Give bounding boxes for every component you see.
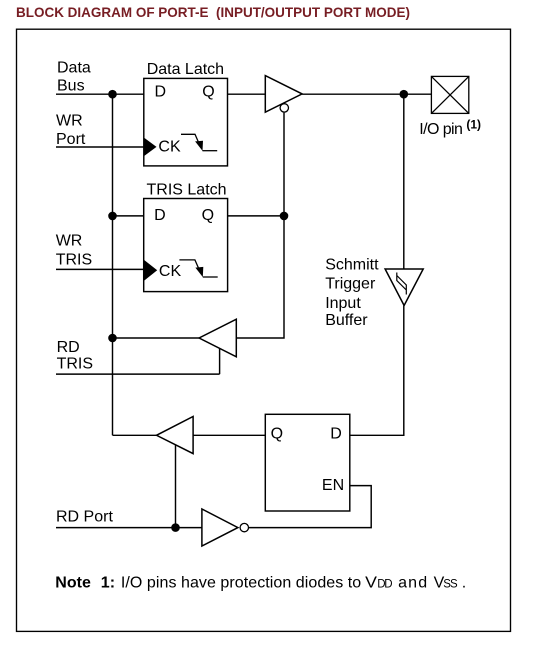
svg-text:CK: CK — [158, 139, 181, 156]
wire TRIS Q down to RD TRIS buffer — [236, 216, 284, 338]
wire TRIS Q out — [228, 215, 284, 217]
RD buffer triangle — [157, 417, 194, 454]
svg-text:Q: Q — [271, 426, 283, 443]
svg-text:I/O pin: I/O pin — [419, 121, 463, 138]
junction dot RD TRIS out — [108, 334, 117, 343]
wire Schmitt out to latch D — [350, 306, 404, 436]
svg-text:Q: Q — [202, 83, 214, 100]
I/O pin box — [431, 76, 468, 113]
wire RD buffer input — [193, 434, 265, 436]
output buffer triangle — [265, 76, 302, 113]
junction dot data bus — [108, 90, 117, 99]
svg-text:.: . — [462, 575, 466, 592]
svg-text:Buffer: Buffer — [325, 312, 368, 329]
wire I/O pin down to Schmitt — [403, 94, 405, 269]
wire WR TRIS — [56, 268, 144, 270]
svg-text:WR: WR — [56, 112, 83, 129]
wire Data Bus horizontal — [56, 93, 144, 95]
junction dot I/O net — [400, 90, 409, 99]
wire TRIS D stub — [113, 215, 144, 217]
latch U3 input latch box — [265, 414, 350, 511]
Schmitt hysteresis glyph — [397, 273, 407, 295]
wire RD buffer output — [113, 434, 157, 436]
node label Data Bus — [56, 59, 463, 525]
wire Data latch Q out — [228, 93, 266, 95]
svg-text:Data: Data — [57, 59, 91, 76]
wire RD TRIS — [56, 349, 220, 375]
wire RD Port — [56, 527, 202, 529]
clock edge symbol U1 — [181, 134, 199, 142]
svg-text:WR: WR — [56, 232, 83, 249]
wire EN net — [249, 486, 371, 528]
wire RD TRIS buffer output — [113, 337, 200, 339]
svg-text:D: D — [155, 83, 167, 100]
svg-text:RD: RD — [57, 339, 80, 356]
tri-state enable bubble — [280, 104, 288, 112]
RD TRIS buffer triangle — [199, 319, 236, 357]
Schmitt trigger triangle — [385, 269, 423, 306]
svg-text:Input: Input — [325, 295, 361, 312]
inverter bubble — [240, 523, 248, 531]
wire output buffer to I/O pin — [302, 93, 431, 95]
svg-text:SS: SS — [443, 579, 458, 591]
svg-text:TRIS: TRIS — [56, 252, 92, 269]
latch U2 TRIS Latch box — [144, 199, 228, 292]
clock wedge U2 — [144, 260, 158, 281]
svg-text:Note: Note — [55, 575, 91, 592]
svg-text:1:: 1: — [101, 575, 115, 592]
wire WR Port — [56, 146, 144, 148]
svg-text:Port: Port — [56, 131, 86, 148]
svg-text:D: D — [154, 207, 166, 224]
svg-text:D: D — [330, 426, 342, 443]
svg-text:Q: Q — [202, 207, 214, 224]
svg-text:Data Latch: Data Latch — [147, 61, 224, 78]
svg-text:BLOCK DIAGRAM OF PORT-E (INPU: BLOCK DIAGRAM OF PORT-E (INPUT/OUTPUT PO… — [16, 4, 410, 20]
wire to tri-state enable bubble — [283, 113, 285, 216]
svg-text:DD: DD — [377, 579, 392, 591]
svg-text:EN: EN — [322, 477, 344, 494]
inverter triangle — [202, 509, 238, 546]
svg-text:RD Port: RD Port — [56, 508, 113, 525]
svg-text:(1): (1) — [466, 118, 481, 132]
junction dot RD Port — [171, 523, 180, 532]
svg-text:Schmitt: Schmitt — [325, 256, 379, 273]
svg-text:CK: CK — [159, 263, 182, 280]
latch U1 Data Latch box — [144, 78, 228, 165]
svg-text:Bus: Bus — [57, 77, 85, 94]
svg-text:and: and — [398, 575, 427, 592]
svg-text:TRIS Latch: TRIS Latch — [147, 182, 227, 199]
svg-text:I/O pins have protection diode: I/O pins have protection diodes to — [121, 575, 361, 592]
clock wedge U1 — [144, 138, 157, 157]
wire data bus vertical — [112, 94, 114, 435]
svg-text:Trigger: Trigger — [325, 276, 376, 293]
junction dot TRIS D — [108, 212, 117, 221]
svg-text:TRIS: TRIS — [57, 355, 93, 372]
svg-text:V: V — [365, 575, 377, 592]
note text — [55, 575, 466, 592]
junction dot TRIS Q — [280, 212, 289, 221]
clock edge symbol U2 — [179, 260, 198, 269]
wire RD buffer enable — [175, 445, 177, 528]
